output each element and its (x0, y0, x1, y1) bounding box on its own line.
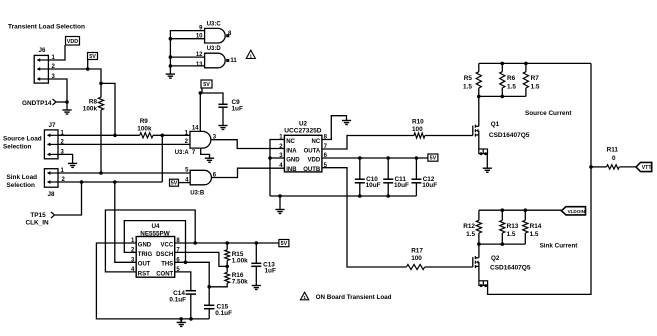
wire U4 RST loop (105, 210, 195, 272)
wire R7 bottom lead (525, 88, 527, 96)
power flag 5V (VDD rail) (428, 154, 438, 162)
wire R9 to U3A pin1 (153, 134, 190, 136)
svg-text:NC: NC (312, 139, 321, 145)
wire vertical to J8 pin2 wire (161, 135, 163, 182)
svg-text:5V: 5V (430, 156, 437, 162)
svg-text:1.5: 1.5 (463, 83, 472, 90)
wire U3D pin12 (170, 56, 204, 58)
wire J8 pin2 (58, 181, 162, 183)
svg-text:10uF: 10uF (366, 182, 381, 189)
wire R13 top lead (501, 210, 503, 220)
gate U3D (205, 53, 226, 68)
net flag VLDOIN (561, 207, 585, 215)
ground under J7 pin3 (68, 163, 77, 167)
wire to C9 (200, 93, 223, 104)
svg-text:VCC: VCC (161, 242, 174, 248)
wire Q2 source (478, 266, 480, 280)
ground under C9 (218, 126, 227, 130)
capacitor C11 (383, 179, 393, 183)
Q1 source pad symbol (479, 149, 488, 154)
wire R5 top lead (478, 63, 480, 71)
resistor R11 (607, 165, 620, 169)
svg-text:0: 0 (612, 155, 616, 162)
capacitor C9 (218, 104, 227, 107)
wire U4 CONT to C14 (175, 272, 191, 291)
svg-text:10uF: 10uF (422, 182, 437, 189)
svg-text:GNDTP14: GNDTP14 (22, 100, 52, 107)
resistor R10 (414, 133, 425, 138)
wire C14 bottom (190, 294, 192, 319)
svg-text:13: 13 (196, 62, 203, 68)
svg-text:OUTB: OUTB (303, 167, 321, 173)
wire source resistor bottom rail (479, 95, 526, 97)
IC U4 body (136, 237, 175, 278)
svg-text:R14: R14 (530, 223, 542, 230)
svg-text:1uF: 1uF (232, 106, 243, 113)
junction R8/J8pin1 (99, 171, 103, 175)
capacitor C13 (251, 263, 261, 266)
junction R5 bottom (477, 95, 481, 99)
capacitor C14 (186, 291, 196, 294)
wire J6 pin2 (48, 69, 101, 97)
junction C12 top (415, 156, 419, 160)
connector J8 (44, 169, 58, 188)
svg-text:10uF: 10uF (394, 182, 409, 189)
wire gnd stem TP14 (66, 102, 68, 110)
gate U3B (190, 170, 211, 185)
wire 5V stem (201, 88, 203, 93)
wire R14 top lead (524, 210, 526, 220)
ground U2 pin8 (342, 121, 351, 125)
svg-text:R11: R11 (607, 147, 619, 154)
wire Q1 pad to ground (486, 154, 488, 169)
svg-text:VDD: VDD (308, 157, 321, 163)
test point TP14 mark (53, 99, 57, 105)
capacitor C15 (204, 305, 214, 308)
transistor Q2 symbol (473, 256, 479, 268)
Q1 pad junction left (480, 152, 483, 155)
svg-text:U3:C: U3:C (207, 22, 222, 28)
svg-text:OUTA: OUTA (304, 148, 321, 154)
wire R16 bottom link (209, 283, 227, 287)
U3D output no-connect square pin 11 (226, 59, 229, 62)
ground bottom rail (177, 322, 186, 326)
svg-text:GND: GND (138, 242, 152, 248)
wire U4 TRIG loop (124, 221, 185, 263)
ground Q1 source (483, 168, 492, 172)
Q2 pad junction right (484, 284, 487, 287)
junction U2 pin3 GND (268, 156, 272, 160)
svg-text:Selection: Selection (3, 144, 32, 151)
svg-text:R13: R13 (507, 223, 519, 230)
wire R14 bottom lead (524, 233, 526, 244)
junction R13 top (501, 208, 505, 212)
ground U2 rail (275, 210, 284, 214)
svg-text:100k: 100k (137, 126, 152, 133)
power flag 5V (near J6) (88, 53, 98, 61)
svg-text:RST: RST (138, 271, 150, 277)
wire C13 top lead (255, 243, 257, 263)
IC U2 body (284, 135, 322, 172)
wire J6 pin3 to ground (48, 79, 67, 102)
svg-text:INB: INB (286, 167, 297, 173)
wire R17 to Q2 gate (425, 266, 473, 268)
wire 5V stem to J6 pin2 (87, 60, 89, 70)
wire J7 pin3 to ground (58, 154, 73, 163)
svg-text:CSD16407Q5: CSD16407Q5 (490, 264, 531, 271)
wire U3C pin9 (170, 31, 204, 75)
svg-text:R10: R10 (412, 119, 424, 126)
svg-text:1uF: 1uF (265, 267, 276, 274)
resistor R15 (225, 250, 230, 261)
svg-text:VTT: VTT (642, 165, 653, 171)
svg-text:R6: R6 (507, 75, 516, 82)
capacitor C10 (355, 179, 365, 183)
junction gnd stem bottom rail (179, 317, 183, 321)
power flag 5V (U3B pin4) (170, 179, 179, 187)
junction U3A pin1/J8pin2 net (161, 134, 165, 138)
svg-text:CLK_IN: CLK_IN (26, 220, 49, 227)
svg-text:J6: J6 (38, 47, 46, 54)
Q1 pad junction right (484, 152, 487, 155)
wire C13 to ground (255, 266, 257, 285)
svg-text:CSD16407Q5: CSD16407Q5 (489, 132, 530, 139)
svg-text:100: 100 (412, 126, 423, 133)
gate U3C (205, 28, 226, 43)
wire U2 ground rail (270, 195, 416, 197)
wire R12 bottom lead (478, 233, 480, 244)
junction R7 top (524, 62, 528, 66)
junction U3D pin12 (169, 55, 173, 59)
svg-text:THS: THS (161, 262, 173, 268)
wire U4 GND pin1 (96, 243, 209, 319)
junction TRIG/THS (184, 261, 188, 265)
svg-text:UCC27325D: UCC27325D (284, 127, 322, 134)
wire C12 top lead (415, 158, 417, 179)
connector J7 (44, 130, 58, 159)
wire C15 bottom (208, 309, 210, 319)
junction C10 bottom (358, 194, 362, 198)
svg-text:J7: J7 (48, 122, 56, 129)
svg-text:U3:A: U3:A (175, 150, 190, 156)
junction R12 bottom (477, 242, 481, 246)
svg-text:1.5: 1.5 (466, 231, 475, 238)
svg-text:14: 14 (192, 125, 199, 131)
junction R15/R16/DSCH (225, 265, 229, 269)
wire bottom gnd stem (180, 319, 182, 323)
svg-text:R7: R7 (531, 75, 540, 82)
junction node B branch (99, 82, 103, 86)
junction gnd rail stem (278, 194, 282, 198)
wire branch to U3A pin1 net (101, 83, 115, 135)
svg-text:100k: 100k (83, 106, 98, 113)
power flag VDD (66, 37, 80, 46)
svg-text:R9: R9 (140, 118, 149, 125)
junction 5V/J6pin2 (86, 67, 90, 71)
wire U3D pin13 (170, 65, 204, 67)
svg-text:U4: U4 (151, 223, 160, 230)
wire sink resistor top rail (479, 209, 562, 211)
svg-text:CONT: CONT (156, 271, 173, 277)
resistor R13 (500, 220, 505, 233)
svg-text:Transient Load Selection: Transient Load Selection (8, 24, 85, 31)
wire R10 to Q1 gate (425, 135, 473, 137)
wire U3B output to U2 INB (212, 168, 285, 177)
svg-text:5V: 5V (281, 241, 288, 247)
wire TP15 drop (55, 182, 82, 215)
wire C10 bottom lead (359, 183, 361, 196)
junction C10 top (358, 156, 362, 160)
wire U4 THS (175, 262, 210, 305)
wire U4 OUT vertical (115, 182, 136, 262)
wire 5V to U3B pin4 (179, 182, 191, 184)
Q2 pad junction left (480, 284, 483, 287)
svg-text:1.00k: 1.00k (232, 258, 248, 265)
wire U4 DSCH (175, 252, 228, 266)
resistor R16 (225, 272, 230, 283)
wire C11 top lead (387, 158, 389, 179)
junction R15 top (225, 241, 229, 245)
resistor R17 (406, 264, 424, 269)
junction R11 tap (589, 165, 593, 169)
junction C13 top (254, 241, 258, 245)
ground C13 (252, 286, 261, 290)
capacitor C12 (411, 179, 421, 183)
resistor R8 (98, 97, 103, 110)
wire C12 bottom lead (415, 183, 417, 196)
wire Q1 drain (478, 96, 480, 126)
svg-text:11: 11 (230, 58, 237, 64)
test point TP15 mark (51, 212, 55, 218)
power flag 5V (U4 VCC) (279, 240, 289, 248)
wire sink resistor bottom rail (479, 243, 525, 245)
wire OUTA to R10 (322, 136, 414, 150)
junction C11 top (386, 156, 390, 160)
svg-text:VDD: VDD (67, 39, 78, 45)
wire U3C pin10 (170, 38, 204, 40)
wire U2 pin3 stub (270, 157, 284, 159)
gate U3A (190, 131, 211, 148)
wire R7 top lead (525, 63, 527, 71)
ground U3C/U3D inputs (166, 74, 175, 78)
wire C9 to ground (222, 107, 224, 125)
svg-text:DSCH: DSCH (156, 252, 173, 258)
svg-text:0.1uF: 0.1uF (169, 296, 186, 303)
wire J7 pin2 to U3A pin2 (58, 143, 190, 145)
ground under TP14 (62, 110, 71, 114)
wire right vertical rail (488, 63, 591, 294)
svg-text:Source Load: Source Load (3, 136, 42, 143)
wire J6 pin1 to VDD (48, 45, 65, 60)
resistor R12 (476, 220, 481, 233)
svg-text:TRIG: TRIG (138, 252, 153, 258)
svg-text:1.5: 1.5 (531, 83, 540, 90)
U3C output no-connect square pin 8 (226, 34, 229, 37)
resistor R9 (140, 133, 153, 138)
wire U2 VDD rail (322, 157, 428, 159)
wire R15 top lead (226, 243, 228, 250)
junction TP14/J6pin3/gnd (65, 100, 69, 104)
junction R14 top (524, 208, 528, 212)
junction on U3A pin1 wire (113, 134, 117, 138)
wire R16 top lead (226, 266, 228, 272)
junction RST loop on VCC (193, 241, 197, 245)
svg-text:1.5: 1.5 (507, 83, 516, 90)
svg-text:R8: R8 (89, 99, 98, 106)
wire R12 top lead (478, 210, 480, 220)
wire right rail to R11 (591, 166, 607, 168)
svg-text:VLDOIN: VLDOIN (568, 209, 586, 214)
junction U4 OUT on J8 pin2 wire (113, 180, 117, 184)
wire U4 VCC rail (175, 242, 279, 244)
power flag 5V (above U3A) (201, 80, 212, 88)
svg-text:1: 1 (303, 295, 306, 300)
wire gnd stem (279, 196, 281, 210)
resistor R5 (476, 72, 481, 88)
wire J7 pin1 to R9 left (58, 134, 140, 136)
junction C14 bottom (189, 317, 193, 321)
wire source resistor top rail (479, 62, 591, 64)
junction R6 bottom (501, 95, 505, 99)
svg-text:Sink Current: Sink Current (540, 242, 579, 249)
svg-text:J8: J8 (47, 191, 55, 198)
svg-text:GND: GND (286, 157, 300, 163)
wire R6 bottom lead (501, 88, 503, 96)
junction U3C pin10 (169, 37, 173, 41)
wire U3A pin14 vertical (199, 93, 201, 131)
wire R5 bottom lead (478, 88, 480, 96)
wire Q1 source (478, 135, 480, 149)
resistor R14 (523, 220, 528, 233)
svg-text:5V: 5V (89, 54, 96, 60)
svg-text:1.5: 1.5 (530, 231, 539, 238)
note triangle 1 (near U3D) (246, 50, 255, 58)
resistor R6 (500, 72, 505, 88)
wire Q2 drain (478, 244, 480, 258)
wire U2 pin1 NC (270, 140, 284, 197)
svg-text:U3:D: U3:D (207, 46, 222, 52)
Q2 source pad symbol (479, 281, 488, 286)
wire U2 pin8 NC to ground (322, 116, 347, 140)
svg-text:Q2: Q2 (491, 255, 500, 262)
junction C11 bottom (386, 194, 390, 198)
svg-text:100: 100 (411, 255, 422, 262)
svg-text:INA: INA (286, 148, 297, 154)
svg-text:0.1uF: 0.1uF (215, 310, 232, 317)
svg-text:R5: R5 (464, 75, 473, 82)
svg-text:U3:B: U3:B (190, 191, 205, 197)
junction THS/C15/R16 (207, 285, 211, 289)
svg-text:TP15: TP15 (30, 212, 46, 219)
wire R8 bottom to J8 pin1 net (100, 110, 102, 173)
wire U3A pin7 to ground (201, 148, 210, 158)
note triangle 1 (bottom note) (300, 292, 308, 300)
svg-text:Sink Load: Sink Load (7, 174, 38, 181)
wire R13 bottom lead (501, 233, 503, 244)
wire R6 top lead (501, 63, 503, 71)
junction 5V/C9/U3A pin14 (199, 91, 203, 95)
svg-text:7.50k: 7.50k (232, 278, 248, 285)
wire OUTB to R17 (322, 168, 407, 267)
svg-text:R12: R12 (463, 223, 475, 230)
svg-text:R17: R17 (411, 248, 423, 255)
svg-text:NC: NC (286, 139, 295, 145)
svg-text:1.5: 1.5 (507, 231, 516, 238)
svg-text:5V: 5V (171, 181, 178, 187)
wire C11 bottom lead (387, 183, 389, 196)
resistor R7 (523, 72, 528, 88)
wire R15 bottom lead (226, 261, 228, 267)
svg-text:ON Board Transient Load: ON Board Transient Load (316, 294, 392, 301)
junction R6 top (501, 62, 505, 66)
svg-text:OUT: OUT (138, 262, 151, 268)
wire TP14 to junction (56, 101, 67, 103)
svg-text:1: 1 (250, 54, 253, 59)
junction TP15 on J8 pin2 wire (80, 180, 84, 184)
svg-text:Q1: Q1 (491, 121, 500, 128)
transistor Q1 symbol (473, 125, 479, 137)
net flag VTT (636, 162, 652, 171)
wire J8 pin1 to U3B pin5 (58, 172, 190, 174)
junction U3D pin13 (169, 64, 173, 68)
wire C10 top lead (359, 158, 361, 179)
wire R11 to VTT (619, 166, 636, 168)
connector J6 (34, 55, 48, 83)
svg-text:5V: 5V (203, 82, 210, 88)
ground U3A pin7 (205, 158, 214, 162)
junction R13 bottom (501, 242, 505, 246)
svg-text:Source Current: Source Current (525, 110, 572, 117)
svg-text:Selection: Selection (7, 182, 36, 189)
wire U3A output to U2 INA (211, 140, 285, 149)
